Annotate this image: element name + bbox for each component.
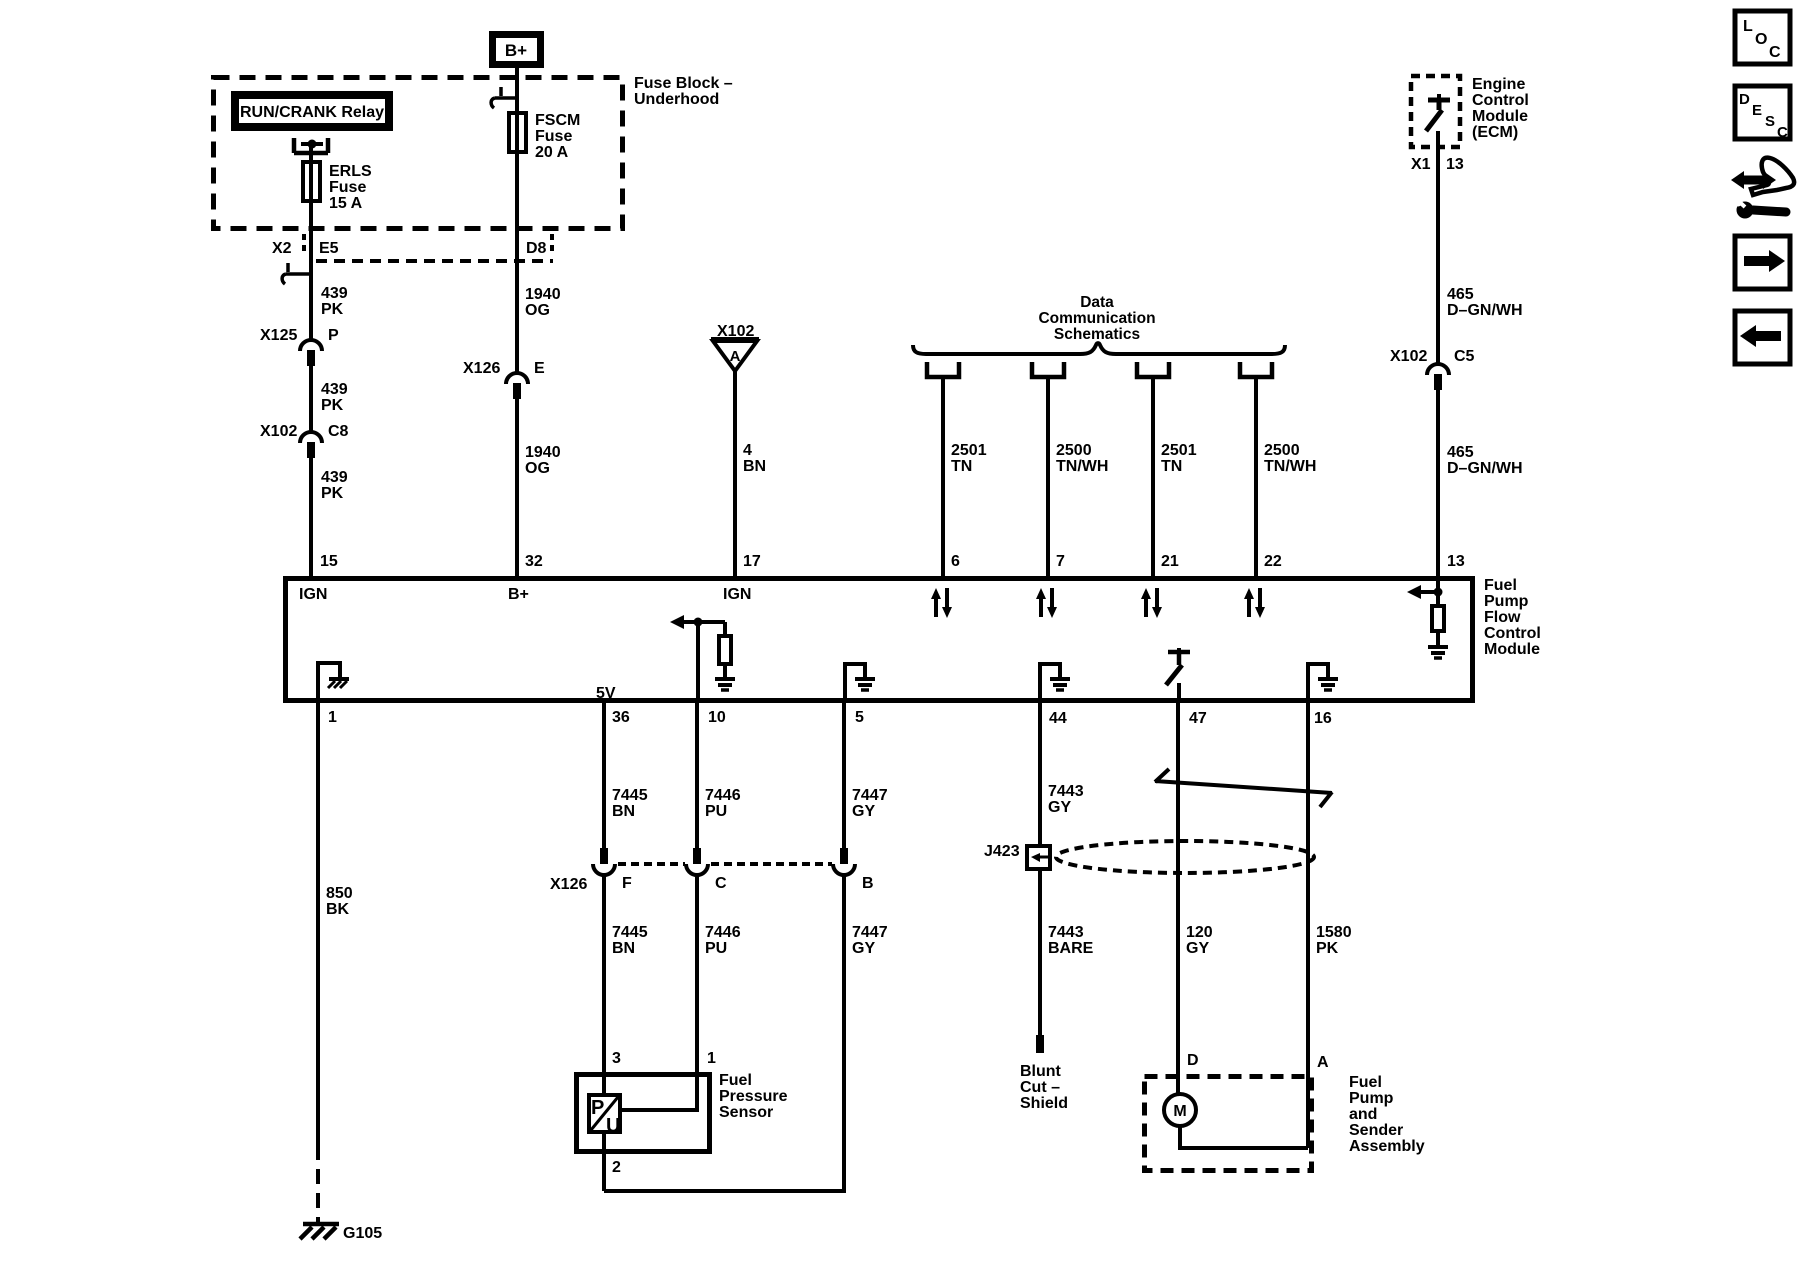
svg-text:TN/WH: TN/WH [1056,458,1108,475]
ground G105 [300,1224,339,1239]
svg-text:G105: G105 [343,1225,382,1242]
wire 7443 GY from pin 44 [1038,701,1042,844]
internal switch at pin 47 [1166,648,1190,701]
svg-text:2501: 2501 [1161,442,1197,459]
internal ground at pin 44 [1040,664,1070,701]
node B+ battery feed box [493,35,541,65]
svg-text:X125: X125 [260,327,297,344]
wire 4 BN to module pin 17 [733,371,737,578]
brace data communication [913,343,1285,354]
svg-text:X126: X126 [463,360,500,377]
label Fuel Pump Flow Control Module [1484,577,1541,658]
svg-text:OG: OG [525,460,550,477]
svg-text:1: 1 [328,709,337,726]
internal ground under pin13 resistor [1428,633,1448,658]
svg-text:7: 7 [1056,553,1065,570]
svg-text:RUN/CRANK Relay: RUN/CRANK Relay [240,104,384,121]
relay contact symbol under RUN/CRANK relay [294,138,328,153]
svg-text:B+: B+ [508,586,529,603]
icon vehicle with wrench [1731,158,1794,219]
svg-text:5: 5 [855,709,864,726]
svg-text:439: 439 [321,285,348,302]
wire sensor pin 2 below P/U [602,1132,606,1191]
svg-text:GY: GY [1048,799,1071,816]
svg-text:A: A [1317,1054,1329,1071]
internal ground at pin 1 [318,663,349,701]
label 7443 GY [1048,783,1084,816]
svg-text:L: L [1743,18,1753,35]
label Engine Control Module (ECM) [1472,76,1529,141]
svg-text:B: B [862,875,874,892]
svg-text:15: 15 [320,553,338,570]
internal 5V reference circuit pin 10 [670,615,725,701]
wire 7443 BARE shield drain [1038,869,1042,1035]
svg-text:Pump: Pump [1484,593,1529,610]
svg-text:439: 439 [321,381,348,398]
wire B+ box down into fuse block [515,68,519,113]
svg-text:X126: X126 [550,876,587,893]
svg-text:D–GN/WH: D–GN/WH [1447,302,1523,319]
internal sense circuit pin 13 [1407,578,1443,604]
svg-text:Module: Module [1472,108,1528,125]
label 465 D-GN/WH [1447,444,1523,477]
fuse FSCM 20A [509,113,526,152]
svg-text:C: C [1777,124,1788,141]
svg-text:Data: Data [1080,294,1114,311]
svg-text:465: 465 [1447,286,1474,303]
svg-text:OG: OG [525,302,550,319]
svg-text:Pump: Pump [1349,1090,1394,1107]
label 7445 BN lower [612,924,648,957]
svg-text:IGN: IGN [723,586,751,603]
svg-text:1: 1 [707,1050,716,1067]
svg-text:15 A: 15 A [329,195,363,212]
label X125 / P [260,327,339,344]
label 120 GY [1186,924,1213,957]
blunt cut end [1036,1035,1044,1053]
connector X125 pin P [300,340,322,366]
svg-text:Shield: Shield [1020,1095,1068,1112]
svg-text:Fuse: Fuse [535,128,572,145]
connector X126 pin E [506,373,528,399]
label X102 / C8 [260,423,349,440]
svg-text:21: 21 [1161,553,1179,570]
svg-text:GY: GY [1186,940,1209,957]
svg-text:PK: PK [1316,940,1339,957]
svg-text:7445: 7445 [612,787,648,804]
svg-text:TN: TN [951,458,972,475]
svg-text:BN: BN [743,458,766,475]
svg-text:Fuel: Fuel [1484,577,1517,594]
fuel pump and sender assembly dashed box [1145,1077,1312,1171]
svg-text:465: 465 [1447,444,1474,461]
svg-text:Module: Module [1484,641,1540,658]
wire ERLS fuse to X2 connector row [309,201,313,274]
label 7446 PU lower [705,924,741,957]
transducer P/U box [589,1095,620,1137]
label 850 BK [326,885,353,918]
sensor box Fuel Pressure Sensor [577,1075,710,1152]
label X1 / 13 [1411,156,1464,173]
svg-text:7446: 7446 [705,787,741,804]
wire 7445 BN from pin 36 [602,701,606,848]
label 439 PK [321,469,348,502]
svg-text:13: 13 [1446,156,1464,173]
svg-text:PK: PK [321,485,344,502]
svg-text:E: E [1752,102,1762,119]
splice J423 box [1027,846,1050,869]
internal resistor pin 13 [1432,606,1444,631]
wire 465 D-GN/WH to module pin 13 [1436,390,1440,578]
svg-text:Sender: Sender [1349,1122,1403,1139]
svg-text:IGN: IGN [299,586,327,603]
wire 2501 TN to pin 21 [1151,377,1155,578]
label X126 / E [463,360,545,377]
svg-text:10: 10 [708,709,726,726]
label 439 PK [321,285,348,318]
svg-text:PU: PU [705,803,727,820]
connector X102 pin A triangle [711,339,759,371]
connector bracket data wire 3 [1137,362,1169,377]
icon LOC box [1735,11,1790,64]
svg-text:GY: GY [852,940,875,957]
module U1 Fuel Pump Flow Control Module box [286,579,1473,701]
label 4 BN [743,442,766,475]
svg-text:1580: 1580 [1316,924,1352,941]
label 7443 BARE [1048,924,1094,957]
svg-text:D: D [1739,91,1750,108]
label X2 / E5 [272,240,339,257]
svg-text:4: 4 [743,442,752,459]
svg-text:2500: 2500 [1056,442,1092,459]
label 7446 PU [705,787,741,820]
svg-text:TN/WH: TN/WH [1264,458,1316,475]
svg-text:5V: 5V [596,685,616,702]
svg-text:J423: J423 [984,843,1020,860]
svg-text:PK: PK [321,301,344,318]
svg-text:3: 3 [612,1050,621,1067]
svg-text:1940: 1940 [525,286,561,303]
svg-text:7443: 7443 [1048,783,1084,800]
svg-text:Blunt: Blunt [1020,1063,1062,1080]
label 465 D-GN/WH [1447,286,1523,319]
wire 850 BK dashed section [316,1169,320,1222]
relay K RUN/CRANK Relay box [235,95,389,127]
svg-text:FSCM: FSCM [535,112,580,129]
motor M fuel pump [1164,1094,1196,1126]
label Fuel Pressure Sensor [719,1072,788,1121]
svg-text:32: 32 [525,553,543,570]
label 2501 TN [951,442,987,475]
svg-text:7446: 7446 [705,924,741,941]
internal ground under pin10 resistor [715,666,735,690]
wire 2501 TN to pin 6 [941,377,945,578]
svg-text:7443: 7443 [1048,924,1084,941]
label 2500 TN/WH [1056,442,1108,475]
svg-text:Fuse Block –: Fuse Block – [634,75,733,92]
connector X102 pin C5 [1427,364,1449,390]
internal data arrows pin 21 [1141,588,1162,618]
wire 439 PK segment 2 [309,366,313,431]
connector bracket data wire 4 [1240,362,1272,377]
internal resistor pin 10 [719,636,731,664]
svg-text:7447: 7447 [852,787,888,804]
svg-text:X102: X102 [717,323,754,340]
svg-text:850: 850 [326,885,353,902]
svg-text:BN: BN [612,803,635,820]
label 1940 OG [525,444,561,477]
svg-text:Control: Control [1484,625,1541,642]
shield dashed ellipse [1056,841,1314,873]
svg-text:X102: X102 [1390,348,1427,365]
svg-text:P: P [328,327,339,344]
svg-text:Assembly: Assembly [1349,1138,1425,1155]
svg-text:C: C [715,875,727,892]
connector bracket data wire 2 [1032,362,1064,377]
internal ground at pin 5 [845,664,875,701]
svg-text:439: 439 [321,469,348,486]
svg-text:C5: C5 [1454,348,1475,365]
svg-text:44: 44 [1049,710,1067,727]
label 7445 BN [612,787,648,820]
svg-text:Fuel: Fuel [719,1072,752,1089]
internal ground at pin 16 [1308,664,1338,701]
svg-text:2501: 2501 [951,442,987,459]
connector row dashed line C-B [711,862,832,866]
wire 1580 PK from pin 16 [1306,701,1310,1148]
label FSCM Fuse 20 A [535,112,580,161]
svg-text:S: S [1765,113,1775,130]
svg-text:D–GN/WH: D–GN/WH [1447,460,1523,477]
svg-text:D8: D8 [526,240,547,257]
label 1580 PK [1316,924,1352,957]
svg-text:Fuel: Fuel [1349,1074,1382,1091]
svg-text:E5: E5 [319,240,339,257]
svg-text:GY: GY [852,803,875,820]
svg-text:(ECM): (ECM) [1472,124,1518,141]
connector X126 pin B [833,848,855,875]
label 2500 TN/WH [1264,442,1316,475]
svg-text:47: 47 [1189,710,1207,727]
fuse block underhood dashed box [214,78,623,229]
svg-text:20 A: 20 A [535,144,569,161]
connector row dashed line E5-D8 [316,259,553,263]
svg-text:16: 16 [1314,710,1332,727]
svg-text:F: F [622,875,632,892]
svg-text:17: 17 [743,553,761,570]
wire 7446 PU to sensor pin 1 [622,875,697,1110]
svg-text:7445: 7445 [612,924,648,941]
connector row dashed line F-C [618,862,685,866]
label Blunt Cut - Shield [1020,1063,1068,1112]
internal data arrows pin 22 [1244,588,1265,618]
svg-text:C: C [1769,44,1781,61]
svg-text:E: E [534,360,545,377]
connector terminal hook at FSCM fuse [491,87,517,108]
connector X102 pin C8 [300,432,322,458]
twisted pair symbol [1155,769,1332,807]
svg-text:Control: Control [1472,92,1529,109]
svg-text:X1: X1 [1411,156,1431,173]
connector X126 pin C [686,848,708,875]
svg-text:BK: BK [326,901,350,918]
svg-text:O: O [1755,31,1767,48]
wire 1940 OG to module pin 32 [515,399,519,578]
wire 2500 TN/WH to pin 22 [1254,377,1258,578]
label 439 PK [321,381,348,414]
svg-text:PK: PK [321,397,344,414]
wire 2500 TN/WH to pin 7 [1046,377,1050,578]
label Data Communication Schematics [1038,294,1155,343]
wire 120 GY from pin 47 to motor [1176,701,1180,1095]
svg-text:ERLS: ERLS [329,163,372,180]
svg-text:P: P [591,1097,604,1119]
wire 439 PK segment 3 to module pin 15 [309,458,313,578]
svg-text:D: D [1187,1052,1199,1069]
svg-text:Flow: Flow [1484,609,1521,626]
icon arrow left box [1735,311,1790,364]
svg-text:C8: C8 [328,423,349,440]
svg-text:Engine: Engine [1472,76,1525,93]
svg-text:13: 13 [1447,553,1465,570]
internal data arrows pin 6 [931,588,952,618]
wire 7447 GY from pin 5 [842,701,846,848]
wire 7446 PU from pin 10 [695,701,699,848]
ECM dashed box [1411,76,1460,147]
svg-text:6: 6 [951,553,960,570]
svg-text:2: 2 [612,1159,621,1176]
wire 465 D-GN/WH from ECM to X102 C5 [1436,131,1440,363]
icon DESC box [1735,86,1790,141]
svg-text:BARE: BARE [1048,940,1094,957]
label ERLS Fuse 15 A [329,163,372,212]
svg-text:A: A [730,348,741,365]
label X126 / F [550,875,632,893]
fuse ERLS 15A [303,162,320,201]
svg-text:Schematics: Schematics [1054,326,1140,343]
svg-text:22: 22 [1264,553,1282,570]
svg-text:TN: TN [1161,458,1182,475]
label 2501 TN [1161,442,1197,475]
wire 7447 GY to sensor pin 2 [604,875,844,1191]
svg-text:120: 120 [1186,924,1213,941]
icon arrow right box [1735,236,1790,289]
connector row dashed separators X2 [302,234,306,256]
wire relay to ERLS fuse [309,144,313,162]
switch inside ECM [1426,94,1450,131]
wire 439 PK segment 1 [309,274,313,339]
svg-text:PU: PU [705,940,727,957]
wire 7445 BN to sensor pin 3 [602,875,606,1095]
label 7447 GY [852,787,888,820]
connector X126 pin F [593,848,615,875]
svg-text:Pressure: Pressure [719,1088,788,1105]
label Fuel Pump and Sender Assembly [1349,1074,1425,1155]
internal data arrows pin 7 [1036,588,1057,618]
svg-text:U: U [606,1115,620,1137]
svg-text:Underhood: Underhood [634,91,719,108]
svg-text:and: and [1349,1106,1377,1123]
svg-text:Cut –: Cut – [1020,1079,1060,1096]
svg-text:M: M [1173,1103,1186,1120]
svg-text:2500: 2500 [1264,442,1300,459]
svg-text:BN: BN [612,940,635,957]
svg-text:B+: B+ [505,41,527,60]
svg-text:Fuse: Fuse [329,179,366,196]
connector bracket data wire 1 [927,362,959,377]
svg-text:Communication: Communication [1038,310,1155,327]
label 7447 GY lower [852,924,888,957]
label Fuse Block - Underhood [634,75,733,108]
svg-text:Sensor: Sensor [719,1104,773,1121]
label X102 / C5 [1390,348,1475,365]
wire motor to pin A leg [1180,1126,1308,1148]
svg-text:X102: X102 [260,423,297,440]
svg-text:7447: 7447 [852,924,888,941]
wire FSCM fuse to X126 connector [515,152,519,372]
svg-text:36: 36 [612,709,630,726]
label 1940 OG [525,286,561,319]
wire 850 BK from pin 1 [316,701,320,1160]
svg-text:X2: X2 [272,240,292,257]
connector X2 terminal hook E5 [282,263,311,284]
svg-text:1940: 1940 [525,444,561,461]
